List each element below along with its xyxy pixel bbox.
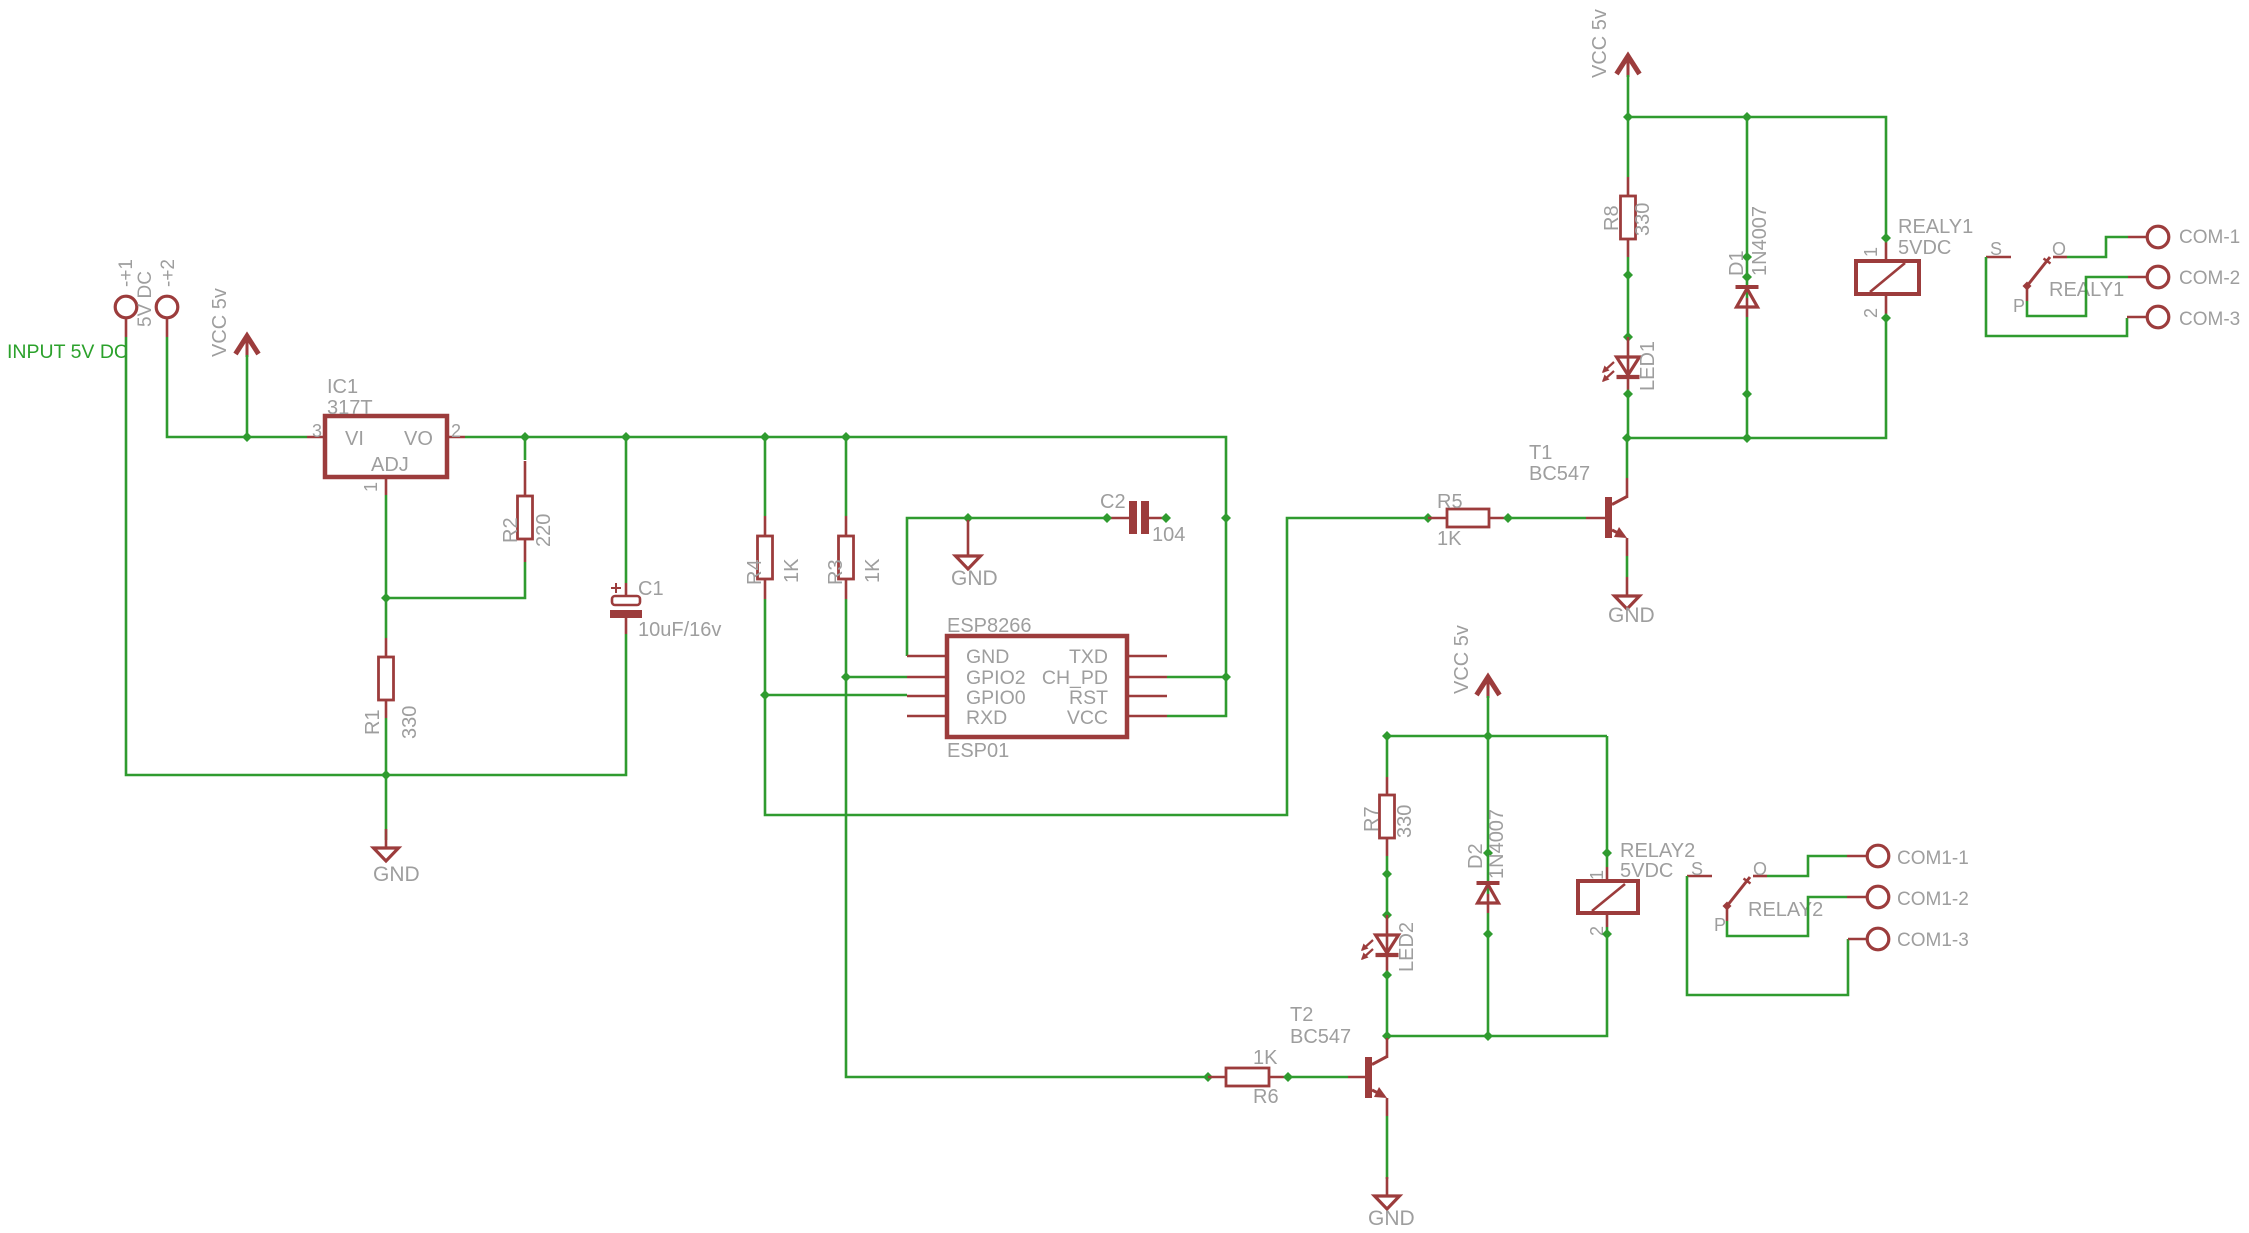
wire R5 to T1 base: [1508, 517, 1605, 520]
wire P to COM1-2: [1727, 897, 1867, 936]
ground symbol GND: [1608, 577, 1655, 627]
switch contact REALY1: [1986, 239, 2124, 316]
svg-text:R8: R8: [1601, 205, 1623, 231]
label -+2: [158, 259, 179, 287]
junction: [1382, 1031, 1392, 1041]
label INPUT 5V DC: [7, 341, 128, 363]
svg-text:-+2: -+2: [158, 259, 179, 287]
wire R7 top: [1386, 736, 1389, 777]
wire C1 top: [625, 437, 628, 583]
svg-text:C2: C2: [1100, 491, 1126, 513]
svg-text:COM-2: COM-2: [2179, 268, 2240, 289]
svg-text:GND: GND: [1368, 1207, 1415, 1228]
svg-text:1N4007: 1N4007: [1486, 809, 1508, 879]
wire GPIO0 net: [765, 518, 1428, 815]
junction: [1742, 252, 1752, 262]
svg-text:1: 1: [1861, 247, 1881, 257]
svg-text:IC1: IC1: [327, 376, 358, 398]
wire T1 emitter: [1626, 556, 1629, 577]
connector pad COM-1: [2147, 226, 2240, 248]
svg-text:VCC 5v: VCC 5v: [1589, 9, 1611, 78]
wire R6 to T2 base: [1288, 1076, 1365, 1079]
svg-text:2: 2: [1861, 308, 1881, 318]
junction: [1423, 513, 1433, 523]
wire S to COM1-3: [1687, 876, 1867, 995]
junction: [963, 513, 973, 523]
connector pad COM1-3: [1867, 928, 1969, 951]
svg-text:D2: D2: [1465, 843, 1487, 869]
svg-text:1: 1: [1587, 870, 1607, 880]
diode D1 1N4007: [1726, 206, 1771, 317]
svg-text:RELAY2: RELAY2: [1620, 840, 1695, 862]
junction: [841, 672, 851, 682]
label 5V DC: [135, 271, 156, 327]
junction: [841, 432, 851, 442]
svg-text:330: 330: [399, 706, 421, 739]
wire O to COM1-1: [1767, 856, 1867, 876]
svg-text:GND: GND: [951, 567, 998, 590]
svg-text:COM1-1: COM1-1: [1897, 848, 1969, 869]
junction: [1221, 672, 1231, 682]
svg-text:R5: R5: [1437, 491, 1463, 513]
capacitor C1 10uF/16v: [610, 578, 721, 641]
svg-text:-+1: -+1: [116, 259, 137, 287]
svg-text:P: P: [2013, 296, 2025, 316]
junction: [1742, 112, 1752, 122]
junction: [1623, 389, 1633, 399]
svg-text:GND: GND: [373, 863, 420, 886]
wire input- to ground rail: [126, 337, 626, 775]
wire R1 to ground rail: [385, 718, 388, 840]
wire relay2 pin2 down: [1387, 927, 1607, 1036]
wire D2 branch: [1487, 736, 1490, 1036]
junction: [242, 432, 252, 442]
svg-text:5VDC: 5VDC: [1898, 237, 1951, 259]
wire CH_PD to rail: [1167, 676, 1226, 679]
resistor R3 1K: [825, 516, 884, 599]
junction: [1881, 313, 1891, 323]
junction: [621, 432, 631, 442]
svg-text:1K: 1K: [862, 558, 884, 583]
svg-text:ESP01: ESP01: [947, 740, 1009, 762]
svg-text:104: 104: [1152, 524, 1185, 546]
junction: [1881, 233, 1891, 243]
wire R7 to LED2: [1386, 856, 1389, 915]
connector pad X1-1: [115, 296, 137, 337]
wire T1 collector: [1626, 438, 1629, 478]
capacitor C2 104: [1100, 491, 1185, 546]
junction: [381, 770, 391, 780]
svg-text:GND: GND: [1608, 604, 1655, 627]
junction: [1623, 332, 1633, 342]
svg-text:317T: 317T: [327, 397, 373, 419]
wire O to COM-1: [2067, 237, 2147, 257]
svg-text:R3: R3: [825, 559, 847, 585]
LED LED2: [1361, 915, 1418, 972]
junction: [1203, 1072, 1213, 1082]
svg-text:10uF/16v: 10uF/16v: [638, 619, 721, 641]
junction: [1483, 731, 1493, 741]
wire LED2 to collector rail: [1386, 975, 1389, 1036]
svg-text:P: P: [1714, 915, 1726, 935]
transistor T1 BC547: [1529, 442, 1627, 556]
svg-text:1N4007: 1N4007: [1749, 206, 1771, 276]
wire T2 emitter: [1386, 1116, 1389, 1179]
junction: [1483, 1031, 1493, 1041]
relay coil RELAY2 5VDC: [1578, 736, 1695, 936]
svg-text:TXD: TXD: [1069, 646, 1108, 668]
svg-text:CH_PD: CH_PD: [1042, 667, 1108, 689]
svg-text:GPIO2: GPIO2: [966, 667, 1026, 689]
ground symbol GND: [373, 829, 420, 886]
svg-text:VCC 5v: VCC 5v: [209, 288, 231, 357]
wire R2 top: [524, 437, 527, 460]
switch contact RELAY2: [1687, 859, 1823, 935]
svg-text:COM-3: COM-3: [2179, 309, 2240, 330]
resistor R1 330: [362, 638, 421, 739]
junction: [1102, 513, 1112, 523]
svg-text:R7: R7: [1361, 806, 1383, 832]
LED LED1: [1602, 337, 1659, 394]
svg-text:C1: C1: [638, 578, 664, 600]
wire D1 branch: [1746, 117, 1749, 438]
svg-text:ADJ: ADJ: [371, 454, 409, 476]
svg-text:O: O: [2052, 239, 2066, 259]
junction: [1742, 433, 1752, 443]
svg-text:R1: R1: [362, 709, 384, 735]
junction: [1602, 848, 1612, 858]
resistor R2 220: [500, 461, 555, 562]
wire VCC top rail: [1628, 117, 1886, 238]
junction: [1742, 389, 1752, 399]
voltage regulator IC1 317T: [307, 376, 465, 495]
junction: [1283, 1072, 1293, 1082]
svg-text:330: 330: [1394, 805, 1416, 838]
svg-text:R2: R2: [500, 517, 522, 543]
wire LED1 to collector rail: [1627, 394, 1630, 438]
svg-text:5VDC: 5VDC: [1620, 860, 1673, 882]
svg-text:BC547: BC547: [1529, 463, 1590, 485]
connector pad X1-2: [156, 296, 178, 337]
svg-text:BC547: BC547: [1290, 1026, 1351, 1048]
svg-text:VI: VI: [345, 428, 364, 450]
svg-text:COM-1: COM-1: [2179, 227, 2240, 248]
svg-text:220: 220: [533, 514, 555, 547]
svg-text:GND: GND: [966, 646, 1009, 668]
svg-text:ESP8266: ESP8266: [947, 615, 1032, 637]
junction: [760, 690, 770, 700]
junction: [1221, 513, 1231, 523]
connector pad COM1-1: [1867, 845, 1969, 869]
svg-text:INPUT 5V DC: INPUT 5V DC: [7, 341, 128, 363]
VCC 5v symbol: [1589, 9, 1640, 117]
svg-text:REALY1: REALY1: [1898, 216, 1973, 238]
resistor R7 330: [1361, 777, 1416, 856]
svg-text:RST: RST: [1069, 687, 1108, 709]
junction: [381, 593, 391, 603]
wire VO rail: [465, 437, 1226, 716]
svg-text:RXD: RXD: [966, 707, 1007, 729]
svg-text:RELAY2: RELAY2: [1748, 899, 1823, 921]
junction: [1622, 433, 1632, 443]
connector pad COM-3: [2147, 306, 2240, 330]
resistor R4 1K: [744, 516, 803, 599]
wire input+ to VI: [167, 337, 307, 437]
svg-text:S: S: [1990, 239, 2002, 259]
junction: [1503, 513, 1513, 523]
junction: [1161, 513, 1171, 523]
VCC 5v symbol: [1451, 625, 1500, 736]
resistor R6 1K: [1208, 1047, 1288, 1108]
diode D2 1N4007: [1465, 809, 1508, 913]
svg-text:VCC 5v: VCC 5v: [1451, 625, 1473, 694]
junction: [1483, 929, 1493, 939]
label -+1: [116, 259, 137, 287]
resistor R5 1K: [1428, 491, 1508, 550]
svg-text:1K: 1K: [1253, 1047, 1278, 1069]
junction: [1382, 869, 1392, 879]
wire R3 top: [845, 437, 848, 516]
svg-text:T1: T1: [1529, 442, 1552, 464]
VCC 5v symbol: [209, 288, 259, 437]
svg-text:COM1-3: COM1-3: [1897, 930, 1969, 951]
connector pad COM1-2: [1867, 886, 1969, 910]
wire ESP GND pin to C2 line: [907, 518, 1107, 656]
svg-text:VO: VO: [404, 428, 433, 450]
svg-text:1: 1: [361, 482, 381, 492]
junction: [1382, 970, 1392, 980]
junction: [1382, 731, 1392, 741]
wire R8 to LED1: [1627, 257, 1630, 337]
svg-text:D1: D1: [1726, 250, 1748, 276]
svg-text:5V DC: 5V DC: [135, 271, 156, 327]
junction: [1602, 929, 1612, 939]
module U1 ESP8266 ESP01: [907, 615, 1167, 762]
junction: [1623, 112, 1633, 122]
svg-text:2: 2: [451, 421, 461, 441]
wire relay1 pin2 down: [1627, 318, 1886, 438]
svg-text:LED2: LED2: [1396, 922, 1418, 972]
svg-text:O: O: [1753, 859, 1767, 879]
junction: [520, 432, 530, 442]
svg-text:R6: R6: [1253, 1086, 1279, 1108]
transistor T2 BC547: [1290, 1004, 1387, 1116]
svg-text:1K: 1K: [781, 558, 803, 583]
junction: [1382, 910, 1392, 920]
wire VCC rail relay2: [1387, 735, 1607, 738]
svg-text:330: 330: [1632, 203, 1654, 236]
svg-text:GPIO0: GPIO0: [966, 687, 1026, 709]
ground symbol GND: [1368, 1177, 1415, 1230]
wire S to COM-3: [1986, 257, 2147, 336]
svg-text:3: 3: [312, 421, 322, 441]
svg-text:LED1: LED1: [1637, 341, 1659, 391]
junction: [1483, 848, 1493, 858]
wire GPIO2 net: [846, 599, 1208, 1077]
svg-text:VCC: VCC: [1067, 707, 1108, 729]
wire ADJ node: [386, 495, 525, 638]
svg-text:R4: R4: [744, 559, 766, 585]
ground symbol GND: [951, 520, 998, 590]
junction: [1742, 272, 1752, 282]
wire R8 top: [1627, 117, 1630, 177]
junction: [1623, 270, 1633, 280]
resistor R8 330: [1601, 177, 1654, 257]
svg-text:1K: 1K: [1437, 528, 1462, 550]
svg-text:COM1-2: COM1-2: [1897, 889, 1969, 910]
connector pad COM-2: [2147, 266, 2240, 289]
relay coil REALY1 5VDC: [1856, 216, 1973, 318]
svg-text:T2: T2: [1290, 1004, 1313, 1026]
wire P to COM-2: [2027, 277, 2147, 316]
wire R4 top: [764, 437, 767, 516]
junction: [760, 432, 770, 442]
svg-text:S: S: [1691, 859, 1703, 879]
